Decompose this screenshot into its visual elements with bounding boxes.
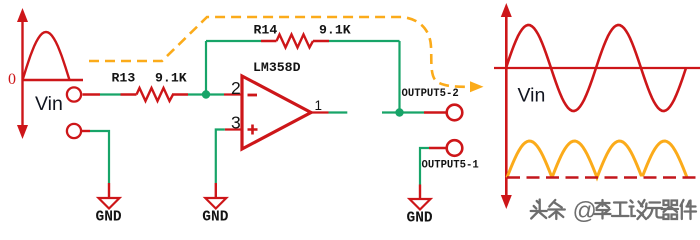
wire R14 to output column [329, 40, 400, 42]
pin 1 stub (output) [311, 111, 329, 113]
ground GND2 triangle [205, 198, 226, 209]
wire pin3 jog [216, 130, 225, 184]
watermark glyph 条 [548, 200, 565, 219]
rectified output wave (orange) [507, 141, 687, 178]
svg-text:R13: R13 [112, 71, 136, 86]
terminal OUTPUT5-2 lead [424, 111, 446, 113]
svg-text:GND: GND [96, 210, 122, 226]
input waveform zero baseline [23, 79, 84, 81]
watermark glyph 工 [612, 203, 629, 217]
wire node A to R14 [206, 40, 261, 42]
terminal OUTPUT5-1 circle [447, 140, 463, 156]
op-amp minus sign (pin 2) [248, 94, 258, 97]
ground GND3 stem (OUTPUT5-1) [419, 185, 421, 200]
output waveform zero baseline [494, 67, 700, 69]
svg-text:GND: GND [407, 211, 433, 226]
svg-text:GND: GND [202, 210, 228, 226]
svg-text:OUTPUT5-2: OUTPUT5-2 [402, 88, 459, 100]
junction node B (output) [395, 108, 403, 116]
ground GND1 triangle [99, 198, 120, 209]
pin 2 stub [224, 93, 242, 95]
ground GND1 (under Vin) lead [82, 130, 90, 132]
output axis down arrowhead [501, 195, 512, 209]
wire output segment from pin 1 [329, 111, 348, 113]
pin 3 stub [225, 128, 242, 130]
op-amp plus sign (pin 3) [248, 125, 258, 135]
wire output segment to node B [382, 111, 424, 113]
svg-text:LM358D: LM358D [253, 60, 301, 75]
resistor R13 body [137, 88, 174, 101]
watermark glyph 件 [681, 200, 697, 219]
resistor R14 leads [261, 40, 329, 42]
ground GND3 triangle [410, 199, 431, 210]
terminal Vin (input port circle) [67, 87, 81, 101]
svg-text:2: 2 [231, 78, 241, 98]
svg-text:0: 0 [8, 71, 16, 88]
wire Vin to R13 [100, 93, 121, 95]
svg-text:3: 3 [231, 113, 241, 133]
ground GND1 stem [108, 183, 110, 198]
watermark 头条 @李工谈元器件 [531, 200, 565, 220]
ground GND2 stem (op-amp pin3) [215, 183, 217, 198]
resistor R14 body [277, 35, 314, 48]
dashed signal-flow path (orange) [89, 17, 469, 87]
wire Vin- to ground [90, 131, 109, 183]
wire feedback down to output node [398, 41, 400, 113]
input waveform axis (left) [21, 20, 23, 128]
terminal OUTPUT5-2 circle [447, 105, 463, 121]
terminal OUTPUT5-1 lead [429, 147, 446, 149]
output waveform axis (right) [505, 14, 508, 198]
op-amp U1 LM358D body [242, 76, 311, 149]
terminal Vin- circle [67, 124, 81, 138]
output Vin sine wave [506, 25, 686, 111]
watermark glyph 器 [662, 201, 679, 220]
dashed zero line of rectified wave [507, 176, 697, 179]
input half-sine hump [23, 32, 70, 80]
watermark glyph 李 [595, 200, 611, 219]
svg-text:@: @ [573, 198, 597, 225]
terminal Vin lead [83, 93, 101, 95]
svg-text:R14: R14 [254, 23, 278, 38]
svg-text:9.1K: 9.1K [319, 23, 351, 38]
watermark glyph 头 [531, 200, 547, 219]
junction node A (inverting input) [202, 90, 210, 98]
resistor R13 leads [121, 93, 189, 95]
svg-text:OUTPUT5-1: OUTPUT5-1 [422, 159, 479, 171]
input axis down arrowhead [17, 125, 28, 139]
wire feedback up from node A [205, 41, 207, 95]
svg-text:Vin: Vin [35, 93, 63, 115]
svg-text:9.1K: 9.1K [155, 71, 187, 86]
output axis up arrowhead [501, 3, 512, 17]
wire R13 to op-amp pin 2 [188, 93, 224, 95]
dashed path arrowhead [470, 81, 484, 92]
watermark glyph 谈 [630, 200, 647, 219]
input axis up arrowhead [17, 8, 28, 22]
svg-text:Vin: Vin [518, 85, 546, 107]
wire OUTPUT5-1 to ground [420, 148, 429, 185]
svg-text:1: 1 [315, 98, 323, 113]
watermark glyph 元 [647, 203, 664, 219]
